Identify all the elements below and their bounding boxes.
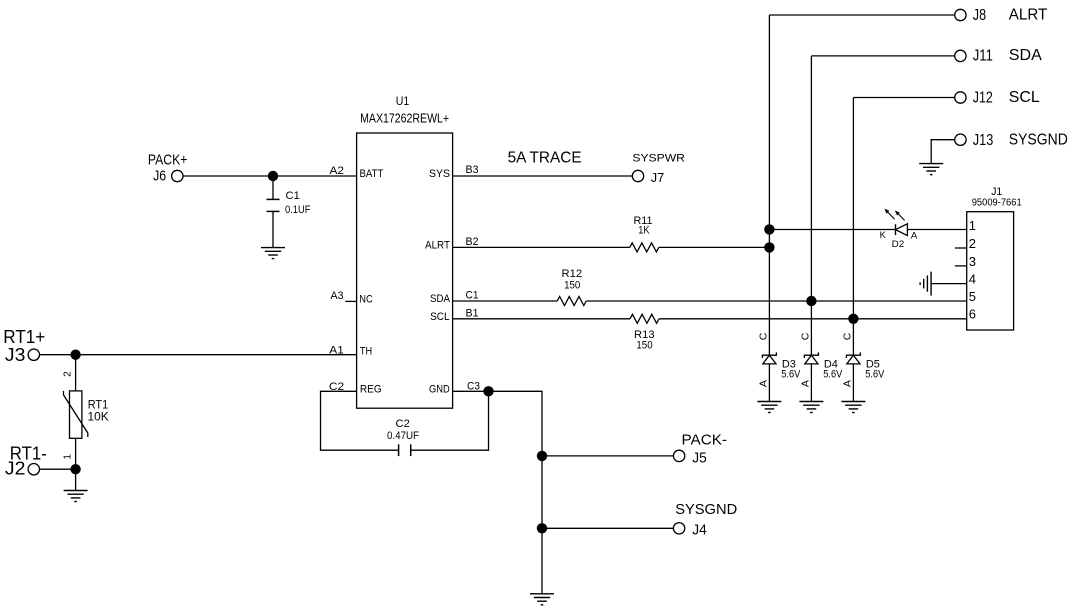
J1 pin 4 with chassis ground bbox=[931, 272, 976, 287]
resistor R12 150 bbox=[557, 268, 586, 305]
connector J4 terminal bbox=[673, 523, 684, 534]
node J13 SYSGND label bbox=[973, 131, 1068, 148]
wire ALRT to R11 bbox=[453, 246, 630, 248]
wire SCL to R13 bbox=[453, 318, 630, 320]
zener diode D4 5.6V bbox=[799, 332, 843, 401]
ground below J13 bbox=[919, 164, 943, 175]
wire C2 to GND net bbox=[411, 391, 489, 450]
junction ALRT column / R11 bbox=[764, 242, 774, 252]
wire R12 to J1 pin 5 bbox=[586, 300, 967, 302]
svg-text:C1: C1 bbox=[286, 190, 300, 202]
thermistor RT1 10K bbox=[64, 391, 109, 438]
wire SDA to R12 bbox=[453, 300, 558, 302]
junction J3 / RT1 bbox=[70, 350, 80, 360]
node J12 SCL label bbox=[973, 89, 1040, 107]
svg-text:A2: A2 bbox=[330, 165, 345, 177]
node J11 SDA label bbox=[973, 47, 1042, 64]
junction ALRT column / LED branch bbox=[764, 224, 774, 234]
pin C2 REG bbox=[329, 381, 382, 395]
svg-text:NC: NC bbox=[359, 293, 372, 305]
svg-text:4: 4 bbox=[969, 272, 976, 287]
svg-text:0.47UF: 0.47UF bbox=[387, 430, 419, 442]
svg-text:J1: J1 bbox=[991, 186, 1002, 198]
junction J2 / RT1 bbox=[70, 464, 80, 474]
wire SDA column vertical bbox=[810, 56, 812, 355]
svg-text:5: 5 bbox=[969, 289, 976, 304]
wire LED branch bbox=[769, 229, 895, 231]
connector J1 95009-7661 body bbox=[967, 186, 1022, 330]
connector J2 terminal bbox=[28, 464, 39, 475]
svg-text:SDA: SDA bbox=[430, 293, 451, 305]
wire R11 to ALRT column bbox=[659, 246, 770, 248]
pin B2 ALRT bbox=[425, 236, 479, 251]
pin C1 SDA bbox=[430, 290, 479, 305]
pin A1 TH bbox=[329, 345, 372, 358]
svg-text:RT1+: RT1+ bbox=[3, 327, 45, 347]
node PACK+ J6 label bbox=[148, 151, 188, 184]
svg-text:SYS: SYS bbox=[429, 168, 450, 180]
svg-text:J13: J13 bbox=[973, 132, 994, 149]
svg-text:A: A bbox=[911, 231, 918, 242]
svg-text:U1: U1 bbox=[396, 96, 410, 108]
pin B3 SYS bbox=[429, 164, 479, 180]
svg-text:A: A bbox=[757, 380, 769, 387]
svg-text:B3: B3 bbox=[466, 164, 479, 176]
svg-text:A: A bbox=[799, 380, 811, 387]
svg-text:A: A bbox=[841, 380, 853, 387]
junction SDA column / pin5 line bbox=[806, 296, 816, 306]
svg-text:J7: J7 bbox=[651, 171, 665, 185]
svg-text:95009-7661: 95009-7661 bbox=[972, 198, 1022, 209]
ground at bottom of GND column bbox=[530, 594, 554, 605]
ground below D5 bbox=[841, 402, 865, 413]
wire J11 horizontal bbox=[811, 55, 954, 57]
wire RT1 top lead bbox=[75, 355, 77, 391]
capacitor C2 0.47UF bbox=[387, 418, 419, 456]
svg-text:J3: J3 bbox=[5, 345, 25, 365]
svg-text:5A TRACE: 5A TRACE bbox=[508, 150, 582, 167]
node J8 ALRT label bbox=[973, 6, 1048, 24]
LED D2 bbox=[880, 210, 918, 250]
svg-text:SCL: SCL bbox=[430, 311, 450, 323]
svg-text:SYSPWR: SYSPWR bbox=[632, 153, 685, 165]
ground below D3 bbox=[757, 402, 781, 413]
svg-text:C: C bbox=[799, 332, 811, 340]
ground below RT1 bbox=[64, 491, 88, 502]
svg-text:3: 3 bbox=[969, 254, 976, 269]
wire R13 to J1 pin 6 bbox=[659, 318, 967, 320]
pin A3 NC bbox=[331, 290, 373, 305]
wire SCL column vertical bbox=[852, 98, 854, 356]
node SYSPWR J7 label bbox=[632, 153, 685, 186]
wire SYS to J7 bbox=[453, 175, 633, 177]
svg-text:5.6V: 5.6V bbox=[823, 369, 843, 381]
svg-text:J4: J4 bbox=[692, 521, 707, 538]
svg-text:SYSGND: SYSGND bbox=[1009, 131, 1068, 148]
wire ALRT column vertical bbox=[768, 15, 770, 355]
node PACK- J5 label bbox=[682, 431, 728, 466]
ground below C1 bbox=[261, 248, 285, 259]
connector J8 terminal bbox=[955, 9, 966, 20]
svg-text:B1: B1 bbox=[466, 308, 479, 320]
svg-text:SCL: SCL bbox=[1009, 89, 1040, 106]
svg-text:BATT: BATT bbox=[360, 168, 384, 180]
svg-text:5.6V: 5.6V bbox=[865, 369, 885, 381]
connector J5 terminal bbox=[673, 450, 684, 461]
svg-text:0.1UF: 0.1UF bbox=[285, 204, 311, 216]
zener diode D3 5.6V bbox=[757, 332, 801, 401]
svg-text:150: 150 bbox=[564, 280, 580, 292]
ground below D4 bbox=[799, 402, 823, 413]
node RT1- J2 label bbox=[5, 443, 47, 478]
wire J12 horizontal bbox=[853, 97, 954, 99]
J1 pin 2 stub bbox=[955, 236, 976, 251]
svg-text:2: 2 bbox=[969, 236, 976, 251]
capacitor C1 bbox=[267, 176, 311, 248]
svg-text:C: C bbox=[841, 332, 853, 340]
svg-text:ALRT: ALRT bbox=[425, 239, 450, 251]
svg-text:GND: GND bbox=[429, 383, 450, 395]
svg-text:5.6V: 5.6V bbox=[781, 369, 801, 381]
svg-text:B2: B2 bbox=[466, 236, 479, 248]
pin C3 GND bbox=[429, 380, 480, 395]
junction GND column / J5 bbox=[537, 451, 547, 461]
connector J12 terminal bbox=[955, 92, 966, 103]
wire to J5 bbox=[542, 455, 673, 457]
junction on BATT net bbox=[268, 171, 278, 181]
node RT1+ J3 label bbox=[3, 327, 45, 365]
wire LED to J1 pin 1 bbox=[907, 229, 966, 231]
resistor R11 1K bbox=[630, 215, 659, 252]
svg-text:C: C bbox=[757, 332, 769, 340]
svg-text:SDA: SDA bbox=[1009, 47, 1042, 64]
ground at J1 pin 4 (rotated) bbox=[920, 272, 931, 296]
node SYSGND J4 label bbox=[675, 501, 737, 538]
svg-text:J6: J6 bbox=[153, 168, 166, 185]
svg-text:1: 1 bbox=[969, 218, 976, 233]
svg-text:K: K bbox=[880, 230, 887, 241]
wire J3 to TH bbox=[40, 354, 357, 356]
svg-text:PACK+: PACK+ bbox=[148, 151, 188, 168]
wire J8 horizontal bbox=[769, 14, 954, 16]
connector J13 terminal bbox=[955, 134, 966, 145]
svg-text:PACK-: PACK- bbox=[682, 431, 728, 448]
NC stub wire bbox=[345, 300, 356, 302]
pin B1 SCL bbox=[430, 308, 478, 323]
wire J13 to ground bbox=[931, 140, 955, 164]
wire GND pin to bottom column bbox=[453, 391, 542, 594]
junction GND column / J4 bbox=[537, 523, 547, 533]
svg-text:6: 6 bbox=[969, 306, 976, 321]
svg-text:C3: C3 bbox=[467, 380, 480, 392]
svg-text:1: 1 bbox=[63, 454, 74, 460]
svg-text:150: 150 bbox=[636, 340, 652, 352]
wire REG to C2 bbox=[321, 391, 399, 450]
svg-text:A3: A3 bbox=[331, 290, 344, 302]
svg-text:J11: J11 bbox=[973, 48, 993, 65]
pin A2 BATT bbox=[330, 165, 384, 180]
svg-text:SYSGND: SYSGND bbox=[675, 501, 737, 518]
svg-text:MAX17262REWL+: MAX17262REWL+ bbox=[360, 112, 449, 126]
connector J6 terminal bbox=[172, 170, 183, 181]
svg-text:ALRT: ALRT bbox=[1009, 6, 1048, 23]
op-amp U1 MAX17262REWL+ body bbox=[357, 96, 453, 408]
wire J6 to BATT bbox=[183, 175, 357, 177]
connector J7 terminal bbox=[632, 170, 643, 181]
svg-text:C1: C1 bbox=[466, 290, 479, 302]
svg-text:C2: C2 bbox=[396, 418, 410, 430]
svg-text:J8: J8 bbox=[973, 7, 986, 24]
svg-text:1K: 1K bbox=[638, 224, 650, 236]
svg-text:R12: R12 bbox=[562, 268, 583, 280]
svg-text:REG: REG bbox=[360, 383, 382, 395]
svg-text:2: 2 bbox=[63, 371, 74, 377]
svg-text:10K: 10K bbox=[88, 410, 109, 424]
connector J3 terminal bbox=[28, 349, 39, 360]
svg-text:J12: J12 bbox=[973, 90, 993, 107]
resistor R13 150 bbox=[630, 314, 659, 351]
svg-text:J2: J2 bbox=[5, 458, 25, 478]
junction GND / C2 bbox=[483, 386, 493, 396]
svg-text:J5: J5 bbox=[692, 449, 707, 466]
svg-text:D2: D2 bbox=[892, 239, 905, 250]
connector J11 terminal bbox=[955, 50, 966, 61]
zener diode D5 5.6V bbox=[841, 332, 885, 401]
svg-text:TH: TH bbox=[360, 346, 372, 358]
junction SCL column / pin6 line bbox=[848, 314, 858, 324]
wire to J4 bbox=[542, 527, 673, 529]
wire RT1 bottom lead bbox=[75, 438, 77, 490]
J1 pin 3 stub bbox=[955, 254, 976, 269]
wire J2 to RT1 bbox=[40, 468, 76, 470]
